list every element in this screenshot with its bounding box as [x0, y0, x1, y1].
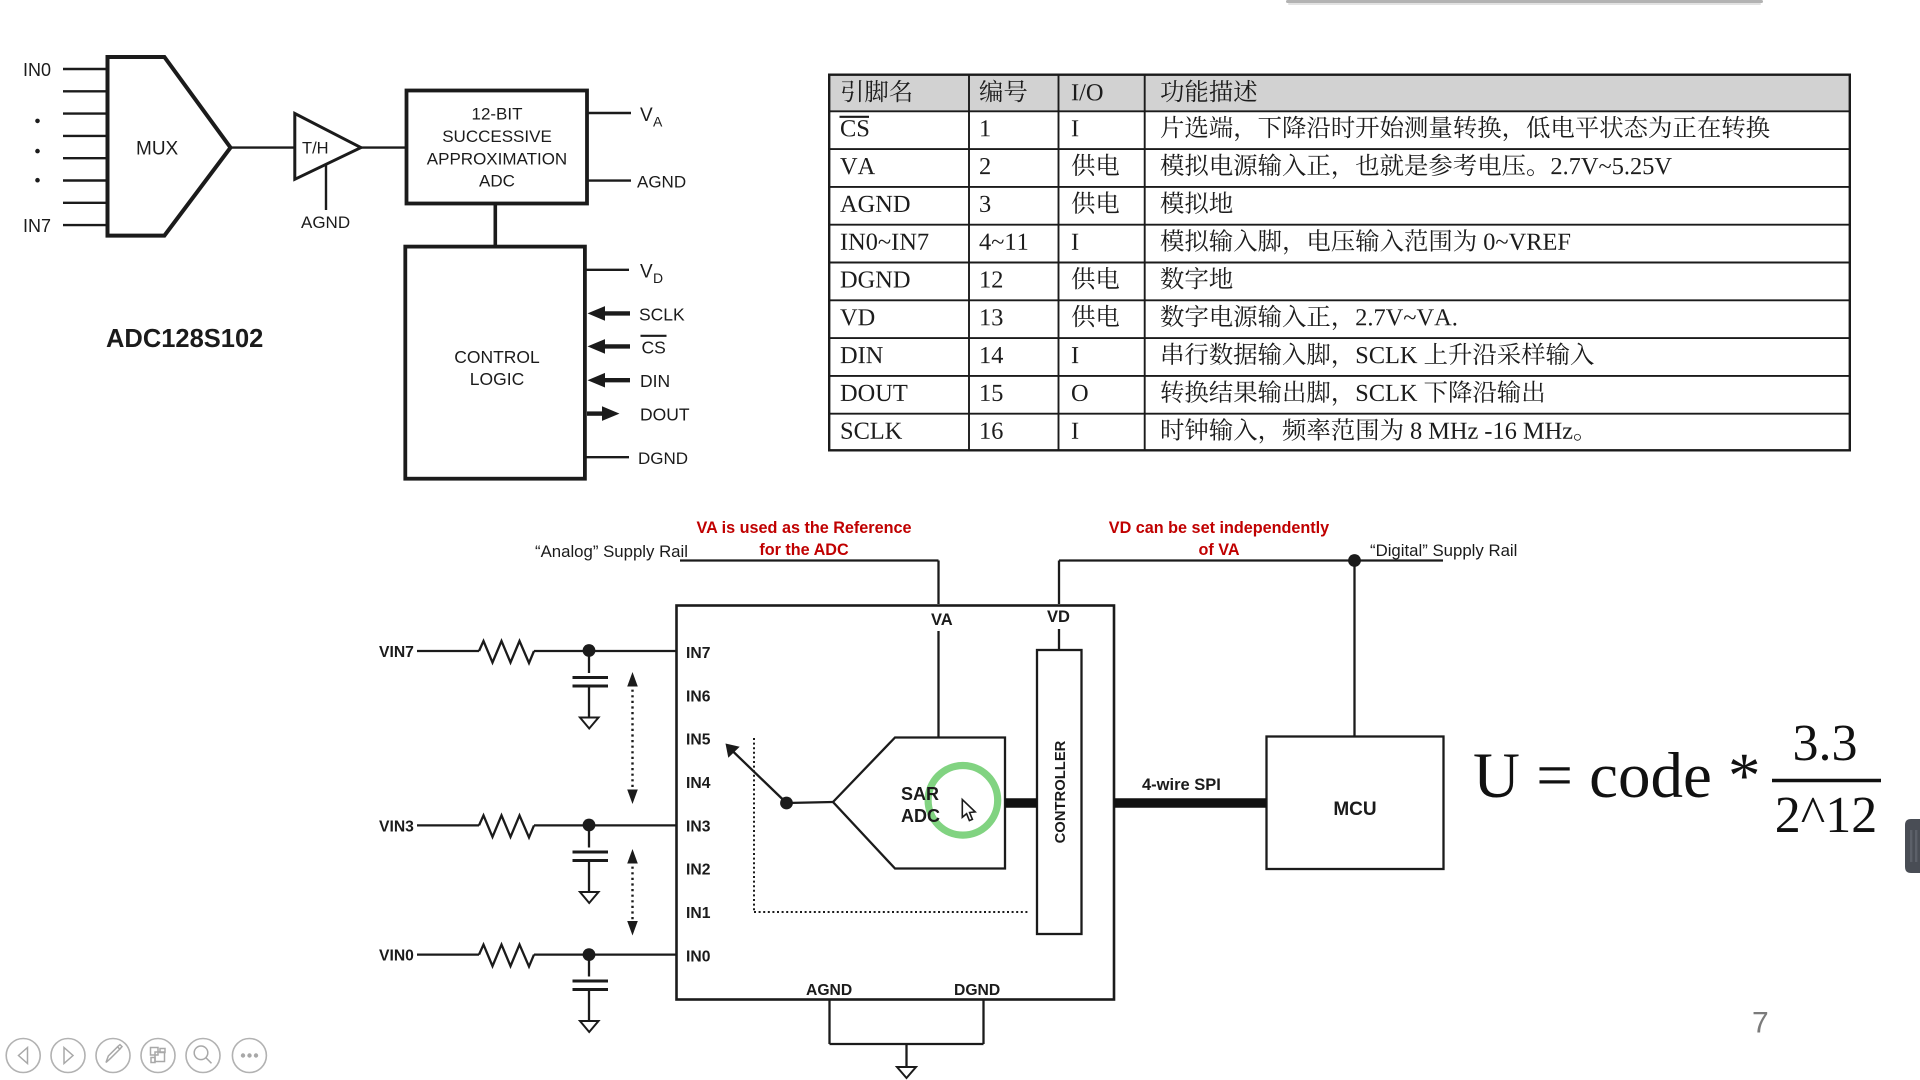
svg-text:DIN: DIN [640, 371, 670, 391]
svg-text:SUCCESSIVE: SUCCESSIVE [442, 127, 552, 146]
svg-text:VIN3: VIN3 [379, 818, 414, 835]
svg-text:CS: CS [642, 338, 666, 358]
svg-text:AGND: AGND [637, 173, 686, 192]
svg-text:SAR: SAR [901, 784, 939, 804]
svg-text:IN6: IN6 [686, 688, 711, 705]
svg-text:IN7: IN7 [686, 645, 711, 662]
svg-text:ADC: ADC [901, 806, 940, 826]
svg-text:LOGIC: LOGIC [470, 369, 524, 389]
svg-text:D: D [653, 270, 663, 286]
svg-text:IN7: IN7 [23, 216, 51, 236]
svg-text:DGND: DGND [954, 982, 1000, 999]
svg-text:DOUT: DOUT [640, 405, 690, 425]
svg-text:ADC: ADC [479, 172, 515, 191]
svg-text:AGND: AGND [301, 213, 350, 232]
svg-text:SCLK: SCLK [639, 304, 685, 324]
svg-text:APPROXIMATION: APPROXIMATION [427, 149, 567, 168]
svg-text:3.3: 3.3 [1793, 715, 1858, 772]
svg-text:VIN7: VIN7 [379, 644, 414, 661]
svg-text:CONTROLLER: CONTROLLER [1053, 740, 1069, 843]
svg-text:MCU: MCU [1333, 799, 1376, 820]
svg-text:ADC128S102: ADC128S102 [106, 325, 263, 353]
svg-text:IN2: IN2 [686, 862, 711, 879]
svg-text:VD: VD [1047, 608, 1070, 626]
svg-text:7: 7 [1752, 1007, 1769, 1040]
svg-text:AGND: AGND [806, 982, 852, 999]
svg-text:IN4: IN4 [686, 775, 711, 792]
svg-text:VA: VA [931, 611, 953, 629]
svg-text:IN0: IN0 [23, 60, 51, 80]
svg-text:for the ADC: for the ADC [759, 541, 849, 559]
svg-text:IN5: IN5 [686, 732, 711, 749]
svg-text:V: V [640, 262, 653, 283]
svg-text:“Digital” Supply Rail: “Digital” Supply Rail [1370, 541, 1517, 560]
svg-text:2^12: 2^12 [1775, 787, 1877, 844]
svg-text:U = code *: U = code * [1473, 740, 1761, 812]
svg-text:CONTROL: CONTROL [454, 347, 540, 367]
svg-text:V: V [640, 105, 653, 126]
svg-text:VA is used as the Reference: VA is used as the Reference [696, 519, 911, 537]
svg-text:IN1: IN1 [686, 905, 711, 922]
svg-text:IN3: IN3 [686, 818, 711, 835]
svg-text:VIN0: VIN0 [379, 948, 414, 965]
svg-text:12-BIT: 12-BIT [471, 105, 522, 124]
svg-text:A: A [653, 114, 663, 130]
svg-text:MUX: MUX [136, 139, 179, 160]
svg-text:of VA: of VA [1198, 541, 1239, 559]
svg-text:IN0: IN0 [686, 948, 711, 965]
svg-text:DGND: DGND [638, 449, 688, 468]
svg-text:4-wire SPI: 4-wire SPI [1142, 776, 1221, 794]
svg-text:T/H: T/H [302, 140, 329, 158]
svg-text:VD can be set independently: VD can be set independently [1109, 519, 1329, 537]
svg-text:“Analog” Supply Rail: “Analog” Supply Rail [535, 542, 688, 561]
